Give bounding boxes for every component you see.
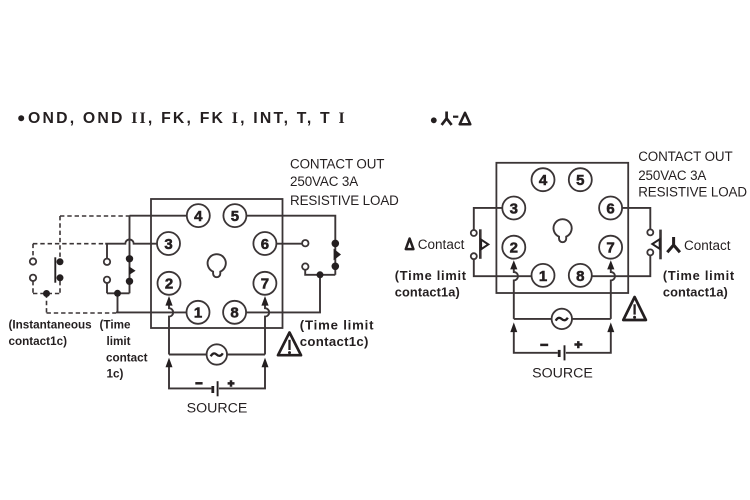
svg-text:8: 8 [230,305,238,322]
svg-text:8: 8 [576,268,584,285]
svg-text:limit: limit [107,335,131,348]
svg-text:contact: contact [106,351,148,364]
svg-text:contact1a): contact1a) [663,285,728,300]
svg-text:(Time limit: (Time limit [663,268,735,283]
svg-text:2: 2 [165,276,173,293]
svg-text:contact1c): contact1c) [9,335,68,348]
svg-text:SOURCE: SOURCE [187,401,248,417]
svg-text:250VAC 3A: 250VAC 3A [638,168,706,183]
svg-text:OND, OND II, FK, FK I, INT, T,: OND, OND II, FK, FK I, INT, T, T I [28,110,347,127]
svg-text:CONTACT OUT: CONTACT OUT [290,157,384,172]
svg-text:1c): 1c) [107,368,124,381]
svg-text:5: 5 [231,208,239,225]
svg-text:RESISTIVE LOAD: RESISTIVE LOAD [290,193,399,208]
svg-text:(Time: (Time [100,319,131,332]
svg-text:5: 5 [576,172,584,189]
svg-text:6: 6 [606,200,614,217]
svg-text:250VAC 3A: 250VAC 3A [290,174,358,189]
svg-text:(Instantaneous: (Instantaneous [9,319,93,332]
svg-text:1: 1 [194,305,202,322]
svg-text:contact1c): contact1c) [300,334,369,349]
svg-text:RESISTIVE LOAD: RESISTIVE LOAD [638,185,747,200]
svg-text:2: 2 [510,240,518,257]
svg-text:contact1a): contact1a) [395,285,460,300]
svg-text:6: 6 [261,236,269,253]
svg-text:4: 4 [194,208,203,225]
svg-text:Contact: Contact [684,238,731,253]
svg-text:7: 7 [606,240,614,257]
svg-text:3: 3 [510,200,518,217]
svg-text:(Time limit: (Time limit [300,318,375,333]
svg-text:1: 1 [539,268,547,285]
svg-text:(Time limit: (Time limit [395,268,467,283]
svg-text:SOURCE: SOURCE [532,366,593,382]
svg-text:3: 3 [164,236,172,253]
svg-text:7: 7 [261,276,269,293]
svg-text:4: 4 [539,172,548,189]
svg-text:CONTACT OUT: CONTACT OUT [638,149,732,164]
svg-text:Contact: Contact [418,237,465,252]
